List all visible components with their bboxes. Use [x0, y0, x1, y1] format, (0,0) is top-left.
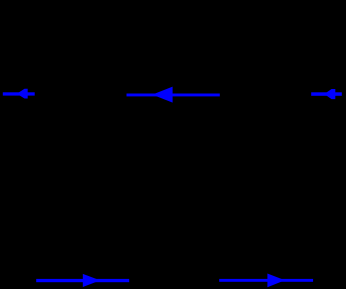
node B — [341, 93, 344, 96]
current arrow I5 (bottom-right, pointing right) — [219, 274, 313, 288]
current arrow I4 (bottom-left, pointing right) — [36, 274, 129, 287]
wire left vertical — [2, 94, 4, 281]
resistor R2 — [220, 86, 276, 102]
current arrow I3 (top-right, pointing left) — [311, 89, 342, 99]
wire top-middle segment — [126, 94, 220, 96]
node A — [2, 93, 5, 96]
current arrow I2 (top-middle, pointing left) — [127, 87, 220, 103]
wire top-right segment — [311, 93, 342, 95]
wire right vertical — [341, 94, 343, 280]
wire bottom-right segment — [219, 280, 342, 282]
wire top-left segment — [3, 93, 36, 95]
battery V1 — [129, 270, 219, 289]
resistor R1 — [35, 86, 91, 102]
wire bottom-left segment — [36, 280, 129, 282]
current arrow I1 (top-left, pointing left) — [3, 89, 35, 99]
